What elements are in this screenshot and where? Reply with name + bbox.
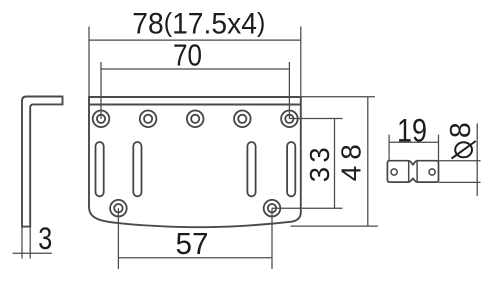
bottom mounting hole left: [110, 200, 127, 217]
main bridge plate outline: [89, 97, 301, 227]
top screw hole 4: [234, 111, 251, 128]
slot 2: [133, 142, 141, 196]
top screw hole 5: [281, 111, 298, 128]
dimension label phi8: phi circle: [455, 142, 472, 157]
dimension 3 lines: [13, 227, 52, 259]
saddle screw hole right: [429, 169, 435, 175]
svg-text:3: 3: [38, 220, 52, 256]
top screw hole 1: [93, 111, 110, 128]
dimension label phi8: phi slash: [452, 141, 476, 159]
svg-text:57: 57: [176, 226, 209, 261]
dimension 70 lines: [101, 62, 289, 119]
side view L bracket: [22, 97, 63, 227]
svg-text:8: 8: [445, 122, 477, 138]
dimension 78 lines: [89, 27, 301, 98]
saddle piece outline: [387, 161, 438, 182]
dimension 19 lines: [389, 135, 438, 161]
top screw hole 2: [140, 111, 157, 128]
svg-text:19: 19: [397, 112, 427, 148]
plate fold line: [89, 104, 301, 106]
saddle groove left edge: [408, 161, 410, 182]
slot 4: [287, 142, 295, 196]
slot 3: [247, 142, 255, 196]
dimension 33 lines: [272, 119, 343, 209]
dimension phi8 lines: [439, 123, 481, 195]
svg-text:78(17.5x4): 78(17.5x4): [132, 8, 265, 41]
svg-text:70: 70: [173, 39, 202, 73]
dimension 57 lines: [118, 208, 272, 269]
saddle groove right edge: [416, 161, 418, 182]
saddle screw hole left: [391, 169, 397, 175]
bottom mounting hole right: [264, 200, 281, 217]
top screw hole 3: [187, 111, 204, 128]
dimension 48 lines: [291, 97, 378, 226]
slot 1: [96, 142, 104, 196]
